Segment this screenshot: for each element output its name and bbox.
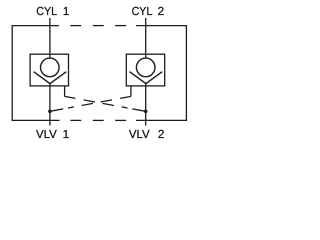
pilot stub from CV1 [64, 86, 66, 97]
enclosure top edge dash 1 [70, 25, 81, 27]
enclosure bottom edge right solid segment [136, 119, 187, 121]
port label CYL 2 [132, 5, 165, 18]
junction dot on VLV1 line [48, 110, 52, 114]
svg-text:2: 2 [158, 5, 165, 18]
enclosure bottom edge dash 2 [93, 119, 104, 121]
check valve CV2 body box [126, 54, 164, 86]
pilot line CV1 to VLV2 line (dashed) [65, 96, 146, 111]
enclosure bottom edge left solid segment [12, 119, 60, 121]
check valve CV1 ball [41, 58, 60, 77]
junction dot on VLV2 line [144, 110, 148, 114]
enclosure bottom edge dash 1 [70, 119, 81, 121]
enclosure top edge dash 3 [115, 25, 126, 27]
enclosure top edge right solid segment [136, 25, 187, 27]
check valve CV1 body box [30, 54, 68, 86]
port label VLV 1 [36, 128, 69, 141]
wire CYL 1 line (port to valve ball) [49, 18, 51, 58]
svg-text:CYL: CYL [36, 5, 57, 18]
wire VLV 1 line (valve seat to port) [49, 83, 51, 125]
enclosure top edge dash 2 [93, 25, 104, 27]
pilot stub from CV2 [130, 86, 132, 97]
port label CYL 1 [36, 5, 69, 18]
enclosure right edge [185, 25, 187, 121]
check valve CV1 seat [34, 72, 67, 84]
svg-text:CYL: CYL [132, 5, 153, 18]
pilot line CV2 to VLV1 line (dashed) [50, 96, 131, 111]
wire CYL 2 line (port to valve ball) [145, 18, 147, 58]
check valve CV2 seat [130, 72, 163, 84]
svg-text:2: 2 [158, 128, 165, 141]
port label VLV 2 [129, 128, 165, 141]
enclosure top edge left solid segment [12, 25, 59, 27]
svg-text:VLV: VLV [36, 128, 57, 141]
wire VLV 2 line (valve seat to port) [145, 83, 147, 125]
check valve CV2 ball [136, 58, 155, 77]
enclosure left edge [11, 25, 13, 121]
svg-text:VLV: VLV [129, 128, 150, 141]
enclosure bottom edge dash 3 [115, 119, 126, 121]
svg-text:1: 1 [63, 128, 70, 141]
svg-text:1: 1 [63, 5, 70, 18]
